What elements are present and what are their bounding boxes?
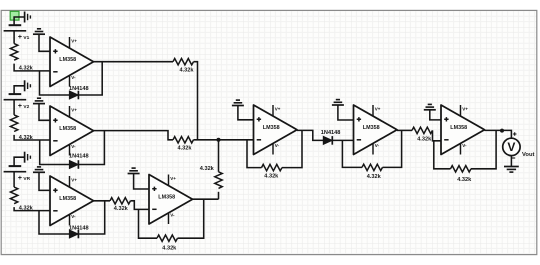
wire U3 feedback right to output [78, 201, 104, 234]
resistor R8 4.32k [110, 198, 131, 204]
svg-text:1N4148: 1N4148 [69, 225, 89, 231]
svg-text:4.32k: 4.32k [162, 245, 177, 251]
svg-text:VR: VR [23, 176, 30, 182]
wire U3 output [94, 200, 111, 202]
wire R3 to op-amp U3 inverting input [14, 207, 50, 211]
svg-text:4.32k: 4.32k [114, 206, 129, 212]
svg-text:4.32k: 4.32k [367, 174, 382, 180]
wire R6 to U4 output [218, 192, 220, 199]
ground at U1 + input [33, 29, 45, 34]
wire U6 output to R11 [397, 129, 412, 131]
wire D4 to U6 inverting input [332, 139, 353, 141]
svg-text:4.32k: 4.32k [19, 65, 34, 71]
svg-text:1N4148: 1N4148 [69, 154, 89, 160]
svg-text:4.32k: 4.32k [417, 137, 432, 143]
wire ground to U1 non-inverting input [39, 34, 50, 51]
svg-text:V2: V2 [23, 104, 29, 110]
svg-text:4.32k: 4.32k [264, 174, 279, 180]
diode D2 1N4148 [69, 160, 78, 169]
wire summing node down to R6 [218, 140, 220, 172]
junction dot summing node [217, 138, 221, 142]
op-amp U5 [254, 105, 298, 155]
diode D3 1N4148 [69, 230, 78, 239]
svg-text:+: + [18, 175, 22, 182]
svg-text:4.32k: 4.32k [19, 135, 34, 141]
wire U1 feedback right to output [78, 62, 102, 95]
wire R2 to op-amp U2 inverting input [14, 135, 50, 140]
wire ground to U5 non-inverting input [238, 106, 254, 120]
wire U7 feedback left [434, 141, 451, 169]
resistor R1 4.32k [10, 44, 17, 61]
svg-text:4.32k: 4.32k [19, 206, 34, 212]
wire U4 feedback left [139, 209, 158, 238]
resistor R11 4.32k [412, 127, 433, 133]
wire ground to U7 non-inverting input [430, 110, 441, 120]
voltmeter Vout [503, 132, 535, 158]
svg-text:+: + [18, 103, 22, 110]
resistor R3 4.32k [10, 187, 17, 204]
wire U6 feedback left [342, 140, 362, 167]
diode D4 1N4148 [323, 136, 332, 145]
wire ground to U2 non-inverting input [39, 104, 50, 121]
diode D1 1N4148 [69, 91, 78, 100]
wire R1 to op-amp U1 inverting input [14, 64, 50, 71]
svg-text:4.32k: 4.32k [178, 145, 193, 151]
ground (sideways) at VR [25, 152, 31, 163]
svg-text:1N4148: 1N4148 [69, 86, 89, 92]
wire ground to U6 non-inverting input [338, 105, 354, 120]
wire R11 to U7 inverting input [433, 130, 442, 140]
wire battery V2 to resistor R2 [13, 100, 15, 115]
svg-text:Vout: Vout [522, 152, 535, 158]
wire VR node to ground and battery [14, 157, 25, 166]
op-amp U1 [50, 37, 94, 87]
resistor R10 4.32k (U6 feedback) [362, 164, 383, 170]
wire U5 feedback left [247, 140, 262, 168]
op-amp U6 [354, 105, 398, 155]
svg-text:V1: V1 [23, 35, 29, 41]
ground at U4 + input [128, 168, 140, 173]
node A (selected green node, stage 1 battery top) [10, 11, 19, 20]
wire U7 output to voltmeter [485, 130, 512, 138]
wire voltmeter to ground [510, 156, 512, 167]
ground at U5 + input [232, 100, 244, 105]
wire R8 to U4 inverting input [131, 201, 150, 210]
resistor R6 4.32k (summing) [215, 172, 222, 189]
wire battery V1 to resistor R1 [13, 31, 15, 44]
wire U6 feedback right to output [383, 130, 402, 167]
svg-text:1N4148: 1N4148 [321, 130, 341, 136]
junction dot output node [500, 129, 504, 133]
wire U1 output [94, 61, 174, 63]
wire V1 node to ground and battery [14, 17, 25, 25]
svg-text:4.32k: 4.32k [200, 166, 215, 172]
wire U5 feedback right to output [282, 130, 302, 167]
wire ground to U3 non-inverting input [39, 172, 50, 190]
resistor R5 4.32k [173, 137, 194, 143]
wire U7 feedback right to output [471, 130, 496, 168]
resistor R4 4.32k [173, 59, 194, 65]
wire U2 feedback left [40, 140, 70, 165]
wire U1 feedback left [40, 71, 70, 95]
wire ground to U4 non-inverting input [134, 174, 149, 190]
ground (sideways) at V2 [25, 80, 31, 91]
wire battery VR to resistor R3 [13, 172, 15, 187]
ground at U7 + input [424, 104, 436, 109]
svg-text:4.32k: 4.32k [180, 67, 195, 73]
op-amp U4 [149, 175, 193, 225]
wire U3 feedback left [39, 211, 69, 234]
resistor R7 4.32k (U4 feedback) [157, 235, 178, 241]
svg-text:+: + [18, 34, 22, 41]
wire R4 to summing node [194, 62, 198, 140]
wire U2 feedback right to output [78, 131, 104, 165]
ground at U2 + input [33, 98, 45, 103]
wire V2 node to ground and battery [14, 86, 25, 94]
svg-text:V: V [507, 140, 515, 154]
wire U4 output [193, 198, 219, 200]
op-amp U7 [441, 105, 485, 155]
resistor R2 4.32k [10, 115, 17, 132]
wire U4 feedback right to output [178, 199, 204, 238]
svg-text:4.32k: 4.32k [457, 177, 472, 183]
resistor R12 4.32k (U7 feedback) [451, 166, 472, 172]
wire R5 to summing node and on to U5 [194, 139, 254, 141]
op-amp U3 [50, 176, 94, 226]
wire U2 output [94, 131, 174, 140]
battery V2 [4, 94, 27, 100]
ground (sideways) at V1 [25, 12, 31, 23]
ground at U6 + input [332, 100, 344, 105]
battery VR [4, 166, 27, 172]
battery V1 [4, 25, 27, 31]
resistor R9 4.32k (U5 feedback) [262, 164, 283, 170]
ground at U3 + input [33, 167, 45, 172]
ground at voltmeter [504, 167, 519, 173]
wire U5 output to diode D4 [297, 130, 323, 140]
op-amp U2 [50, 106, 94, 156]
